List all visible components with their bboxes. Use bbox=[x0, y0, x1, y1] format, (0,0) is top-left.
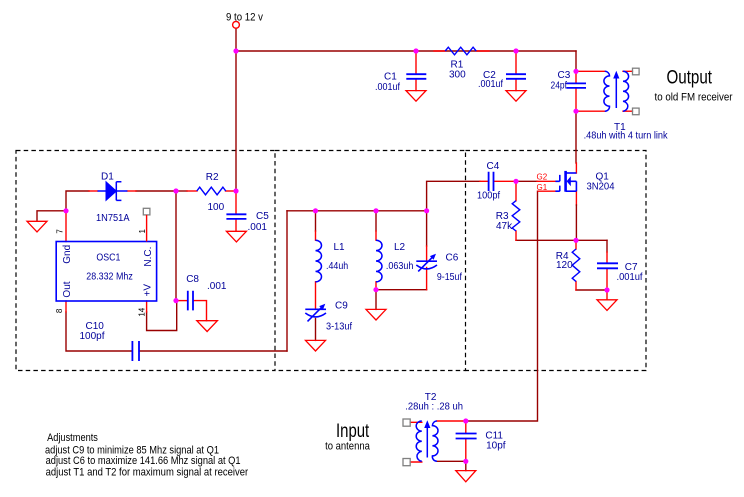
label: G2 gate bbox=[537, 173, 548, 182]
node: oscillator ground junction bbox=[63, 208, 68, 213]
wire: R4 bottom lead to C7 bottom node bbox=[576, 282, 607, 291]
svg-text:.001uf: .001uf bbox=[478, 79, 503, 90]
wire: C5 top lead bbox=[235, 191, 237, 214]
svg-text:R2: R2 bbox=[206, 172, 219, 183]
capacitor C4 bbox=[489, 172, 494, 191]
transistor Q1 (dual-gate MOSFET) bbox=[555, 171, 576, 192]
svg-text:.44uh: .44uh bbox=[326, 261, 348, 272]
svg-text:C8: C8 bbox=[186, 274, 199, 285]
label: R3 value bbox=[496, 211, 513, 232]
capacitor C7 bbox=[597, 263, 618, 268]
wire: T1 primary leads bbox=[576, 71, 605, 111]
wire: R2 left lead bbox=[176, 190, 197, 192]
node: C3/T1 bottom / Q1 drain bbox=[573, 109, 578, 114]
wire: C7 bottom lead bbox=[606, 269, 608, 290]
transformer T1 bbox=[604, 71, 629, 112]
svg-text:7: 7 bbox=[55, 229, 64, 234]
ground (below C11) bbox=[456, 471, 476, 482]
label: C6 value bbox=[437, 252, 462, 283]
svg-text:100: 100 bbox=[208, 202, 225, 213]
node: rail / C4 / C6 corner bbox=[424, 208, 429, 213]
capacitor C1 bbox=[406, 74, 426, 79]
terminal: T2 input top bbox=[403, 419, 410, 426]
label: 9 to 12 v bbox=[226, 12, 263, 24]
svg-text:adjust T1 and T2 for maximum s: adjust T1 and T2 for maximum signal at r… bbox=[46, 467, 249, 479]
wire: pin8 net through C10 bbox=[66, 301, 287, 351]
wire: T2 secondary bottom lead to node bbox=[437, 460, 466, 462]
variable capacitor C6 bbox=[416, 254, 437, 272]
wire: C2 leads bbox=[515, 51, 517, 91]
svg-text:.001uf: .001uf bbox=[375, 82, 400, 93]
label: T2 value bbox=[405, 392, 463, 412]
label: C7 value bbox=[617, 262, 643, 283]
wire: R4 top lead bbox=[575, 240, 577, 249]
wire: C5 bottom lead to ground bbox=[235, 219, 237, 231]
wire: R1 leads bbox=[434, 50, 489, 52]
svg-text:C3: C3 bbox=[558, 70, 571, 81]
wire: ground branch at oscillator Gnd node bbox=[37, 211, 66, 222]
svg-text:G1: G1 bbox=[537, 183, 548, 192]
svg-text:C1: C1 bbox=[384, 71, 397, 82]
svg-text:C6: C6 bbox=[446, 252, 459, 263]
svg-text:300: 300 bbox=[449, 70, 466, 81]
label: C8 value bbox=[186, 274, 227, 292]
label: C1 value bbox=[375, 71, 400, 93]
terminal: T1 output top bbox=[633, 68, 640, 75]
node: supply tap bbox=[233, 48, 238, 53]
wire: T2 primary leads from terminals bbox=[410, 422, 422, 462]
label: C3 value bbox=[551, 70, 571, 92]
label: R1 value bbox=[449, 60, 466, 81]
dashed box: oscillator stage bbox=[16, 151, 275, 371]
svg-text:D1: D1 bbox=[101, 171, 114, 182]
ground (oscillator Gnd pin) bbox=[27, 221, 47, 232]
wire: C11 leads bbox=[465, 421, 467, 461]
wire: D1 cathode to node bbox=[127, 190, 176, 192]
svg-text:1: 1 bbox=[138, 229, 147, 234]
node: C3/T1 top bbox=[573, 69, 578, 74]
wire: tank rail bbox=[287, 210, 427, 212]
wire: Q1 source down to bias node bbox=[575, 191, 577, 205]
wire: pin 1 stub bbox=[146, 215, 148, 242]
node: T2 top / C11 / G1 net bbox=[463, 418, 468, 423]
svg-text:C9: C9 bbox=[335, 301, 348, 312]
wire: D1 anode net with corner bbox=[66, 191, 98, 211]
label: C9 value bbox=[326, 301, 352, 333]
svg-text:.001uf: .001uf bbox=[617, 272, 643, 283]
node: D1/R2 junction bbox=[173, 188, 178, 193]
label: pin 7 bbox=[55, 229, 64, 234]
label: G1 gate bbox=[537, 183, 548, 192]
label: OSC1 Out pin bbox=[62, 281, 73, 297]
wire: R3 top lead bbox=[515, 181, 517, 200]
svg-text:.28uh : .28 uh: .28uh : .28 uh bbox=[405, 401, 463, 412]
wire: rail corner down to C3/T1 bbox=[575, 51, 577, 71]
svg-text:.48uh with 4 turn link: .48uh with 4 turn link bbox=[584, 130, 669, 141]
node: L2 bottom / C6 bottom bbox=[373, 287, 378, 292]
svg-text:.001: .001 bbox=[248, 222, 268, 233]
wire: C6 top lead from rail bbox=[426, 211, 428, 261]
label: L2 value bbox=[386, 242, 414, 272]
wire: C7 top lead bbox=[606, 240, 608, 263]
wire: R3 bottom lead and bias rail to C7 bbox=[516, 231, 607, 240]
svg-text:L1: L1 bbox=[334, 242, 346, 253]
inductor L1 bbox=[316, 240, 322, 282]
label: C5 value bbox=[248, 211, 270, 233]
wire: node down to C8 node bbox=[175, 191, 177, 301]
label: pin 8 bbox=[55, 308, 64, 313]
svg-text:C4: C4 bbox=[487, 161, 500, 172]
svg-text:47k: 47k bbox=[496, 221, 513, 232]
label: pin 14 bbox=[138, 307, 147, 316]
wire: T1 bottom node down to Q1 drain bbox=[575, 111, 577, 173]
wire: R2 right lead bbox=[226, 190, 237, 192]
svg-text:3N204: 3N204 bbox=[587, 181, 615, 192]
node: C2 tap bbox=[513, 48, 518, 53]
node: R4 / C7 / ground bbox=[604, 287, 609, 292]
svg-text:Adjustments: Adjustments bbox=[47, 432, 98, 444]
svg-text:24pf: 24pf bbox=[551, 81, 568, 92]
capacitor C2 bbox=[506, 74, 526, 79]
inductor L2 bbox=[376, 240, 382, 282]
transformer T2 bbox=[416, 420, 438, 461]
svg-text:to antenna: to antenna bbox=[325, 440, 371, 452]
node: T2 bottom / C11 / ground bbox=[463, 459, 468, 464]
dashed box: mixer stage bbox=[466, 151, 647, 371]
zener diode D1 bbox=[98, 182, 128, 201]
wire: G1 lead and long net down to T2 bbox=[466, 191, 556, 421]
label: L1 value bbox=[326, 242, 348, 272]
terminal: T1 output bottom bbox=[633, 108, 640, 115]
svg-text:.001: .001 bbox=[207, 281, 227, 292]
svg-text:9-15uf: 9-15uf bbox=[437, 272, 462, 283]
wire: C3 leads bbox=[575, 71, 577, 111]
capacitor C5 bbox=[226, 214, 246, 219]
label: T1 value bbox=[584, 122, 669, 141]
svg-text:L2: L2 bbox=[394, 242, 406, 253]
wire: L1 top lead from rail bbox=[315, 211, 317, 240]
node: L1 tap on rail bbox=[313, 208, 318, 213]
wire: 9-12v supply drop to rail junction bbox=[235, 28, 237, 51]
svg-text:.063uh: .063uh bbox=[386, 261, 414, 272]
ground (below C2) bbox=[506, 91, 526, 102]
wire: C7 node to ground bbox=[606, 290, 608, 300]
label: C10 value bbox=[80, 321, 105, 342]
ground (below R4/C7) bbox=[597, 300, 617, 311]
label: OSC1 +V pin bbox=[143, 284, 154, 297]
wire: T1 link leads to terminals bbox=[623, 71, 632, 111]
svg-text:adjust C6 to maximize 141.66 M: adjust C6 to maximize 141.66 Mhz signal … bbox=[46, 455, 241, 467]
node: C1 tap bbox=[413, 48, 418, 53]
svg-text:1N751A: 1N751A bbox=[96, 213, 130, 224]
label: C4 value bbox=[477, 161, 500, 202]
terminal: 9 to 12 v supply bbox=[233, 21, 240, 28]
svg-text:G2: G2 bbox=[537, 173, 548, 182]
label: C11 value bbox=[485, 431, 505, 452]
resistor R4 bbox=[572, 249, 580, 282]
ground (below C9) bbox=[306, 340, 326, 351]
terminal: T2 input bottom bbox=[403, 459, 410, 466]
wire: C10 net up to tank rail bbox=[286, 211, 288, 351]
ground (below C8) bbox=[197, 321, 218, 332]
capacitor C10 bbox=[132, 341, 139, 361]
svg-text:Input: Input bbox=[336, 421, 370, 442]
label: C2 value bbox=[478, 70, 503, 90]
label: D1 name bbox=[96, 171, 130, 223]
wire: L2 node to C6 bottom bbox=[376, 289, 427, 291]
svg-text:Output: Output bbox=[667, 67, 713, 88]
svg-text:120: 120 bbox=[556, 260, 573, 271]
capacitor C11 bbox=[456, 434, 477, 439]
terminal: N.C. pin 1 square bbox=[143, 208, 150, 215]
wire: T2 secondary top lead to node bbox=[437, 420, 466, 422]
ground (below C5) bbox=[226, 231, 246, 242]
node: C4 / R3 / G2 bbox=[513, 179, 518, 184]
wire: C1 leads bbox=[415, 51, 417, 91]
svg-text:14: 14 bbox=[138, 307, 147, 316]
wire: G2 lead bbox=[516, 180, 556, 182]
svg-text:100pf: 100pf bbox=[477, 191, 500, 202]
svg-text:Out: Out bbox=[62, 281, 73, 297]
label: OSC1 name bbox=[86, 253, 133, 283]
svg-text:C5: C5 bbox=[256, 211, 269, 222]
capacitor C8 bbox=[188, 291, 193, 311]
ground (below L2) bbox=[366, 309, 386, 320]
node: source / R3 / R4 bbox=[573, 238, 578, 243]
ground (below C1) bbox=[406, 91, 426, 102]
label: Q1 name bbox=[587, 171, 615, 192]
wire: pin14 +V net to C8 node bbox=[147, 301, 177, 331]
wire: L2 bottom lead to node bbox=[375, 282, 377, 290]
label: Input bbox=[325, 421, 371, 453]
label: R4 value bbox=[556, 251, 573, 271]
svg-text:Gnd: Gnd bbox=[62, 245, 73, 264]
wire: L2 top lead from rail bbox=[375, 211, 377, 240]
wire: C4 net from rail corner to G2 node bbox=[427, 181, 516, 211]
wire: C8 right lead to ground bbox=[194, 301, 207, 321]
wire: C11 node to ground bbox=[465, 461, 467, 470]
svg-text:28.332 Mhz: 28.332 Mhz bbox=[86, 272, 133, 283]
label: OSC1 N.C. pin bbox=[143, 247, 154, 267]
wire: C9 bottom lead to ground bbox=[315, 319, 317, 341]
svg-text:10pf: 10pf bbox=[486, 440, 506, 451]
svg-text:9 to 12 v: 9 to 12 v bbox=[226, 12, 263, 24]
wire: L2 node to ground bbox=[375, 290, 377, 310]
svg-text:3-13uf: 3-13uf bbox=[326, 321, 352, 332]
wire: C6 bottom lead bbox=[426, 268, 428, 290]
svg-text:100pf: 100pf bbox=[80, 331, 105, 342]
label: R2 value bbox=[206, 172, 225, 213]
node: R2/C5 supply junction bbox=[233, 188, 238, 193]
wire: supply down to R2/C5 node bbox=[235, 51, 237, 191]
svg-text:+V: +V bbox=[143, 284, 154, 297]
svg-text:8: 8 bbox=[55, 308, 64, 313]
variable capacitor C9 bbox=[305, 304, 326, 322]
wire: L1 bottom lead to C9 bbox=[315, 282, 317, 309]
resistor R1 bbox=[445, 47, 476, 55]
label: pin 1 bbox=[138, 229, 147, 234]
wire: C8 left lead bbox=[176, 300, 187, 302]
wire: pin7 stub to Gnd node bbox=[65, 211, 67, 242]
svg-text:to old FM receiver: to old FM receiver bbox=[655, 92, 733, 104]
svg-text:OSC1: OSC1 bbox=[96, 253, 120, 264]
label: Output bbox=[655, 67, 733, 103]
svg-text:N.C.: N.C. bbox=[143, 247, 154, 267]
resistor R3 bbox=[512, 201, 520, 231]
label: adjustments notes bbox=[45, 432, 248, 479]
capacitor C3 bbox=[566, 83, 586, 88]
wire: power rail top bbox=[236, 50, 576, 52]
dashed box: tank/multiplier stage bbox=[275, 151, 466, 371]
resistor R2 bbox=[197, 187, 226, 195]
label: OSC1 Gnd pin bbox=[62, 245, 73, 264]
node: C8 / +V junction bbox=[173, 298, 178, 303]
IC OSC1 body bbox=[56, 242, 156, 302]
node: L2 tap on rail bbox=[373, 208, 378, 213]
